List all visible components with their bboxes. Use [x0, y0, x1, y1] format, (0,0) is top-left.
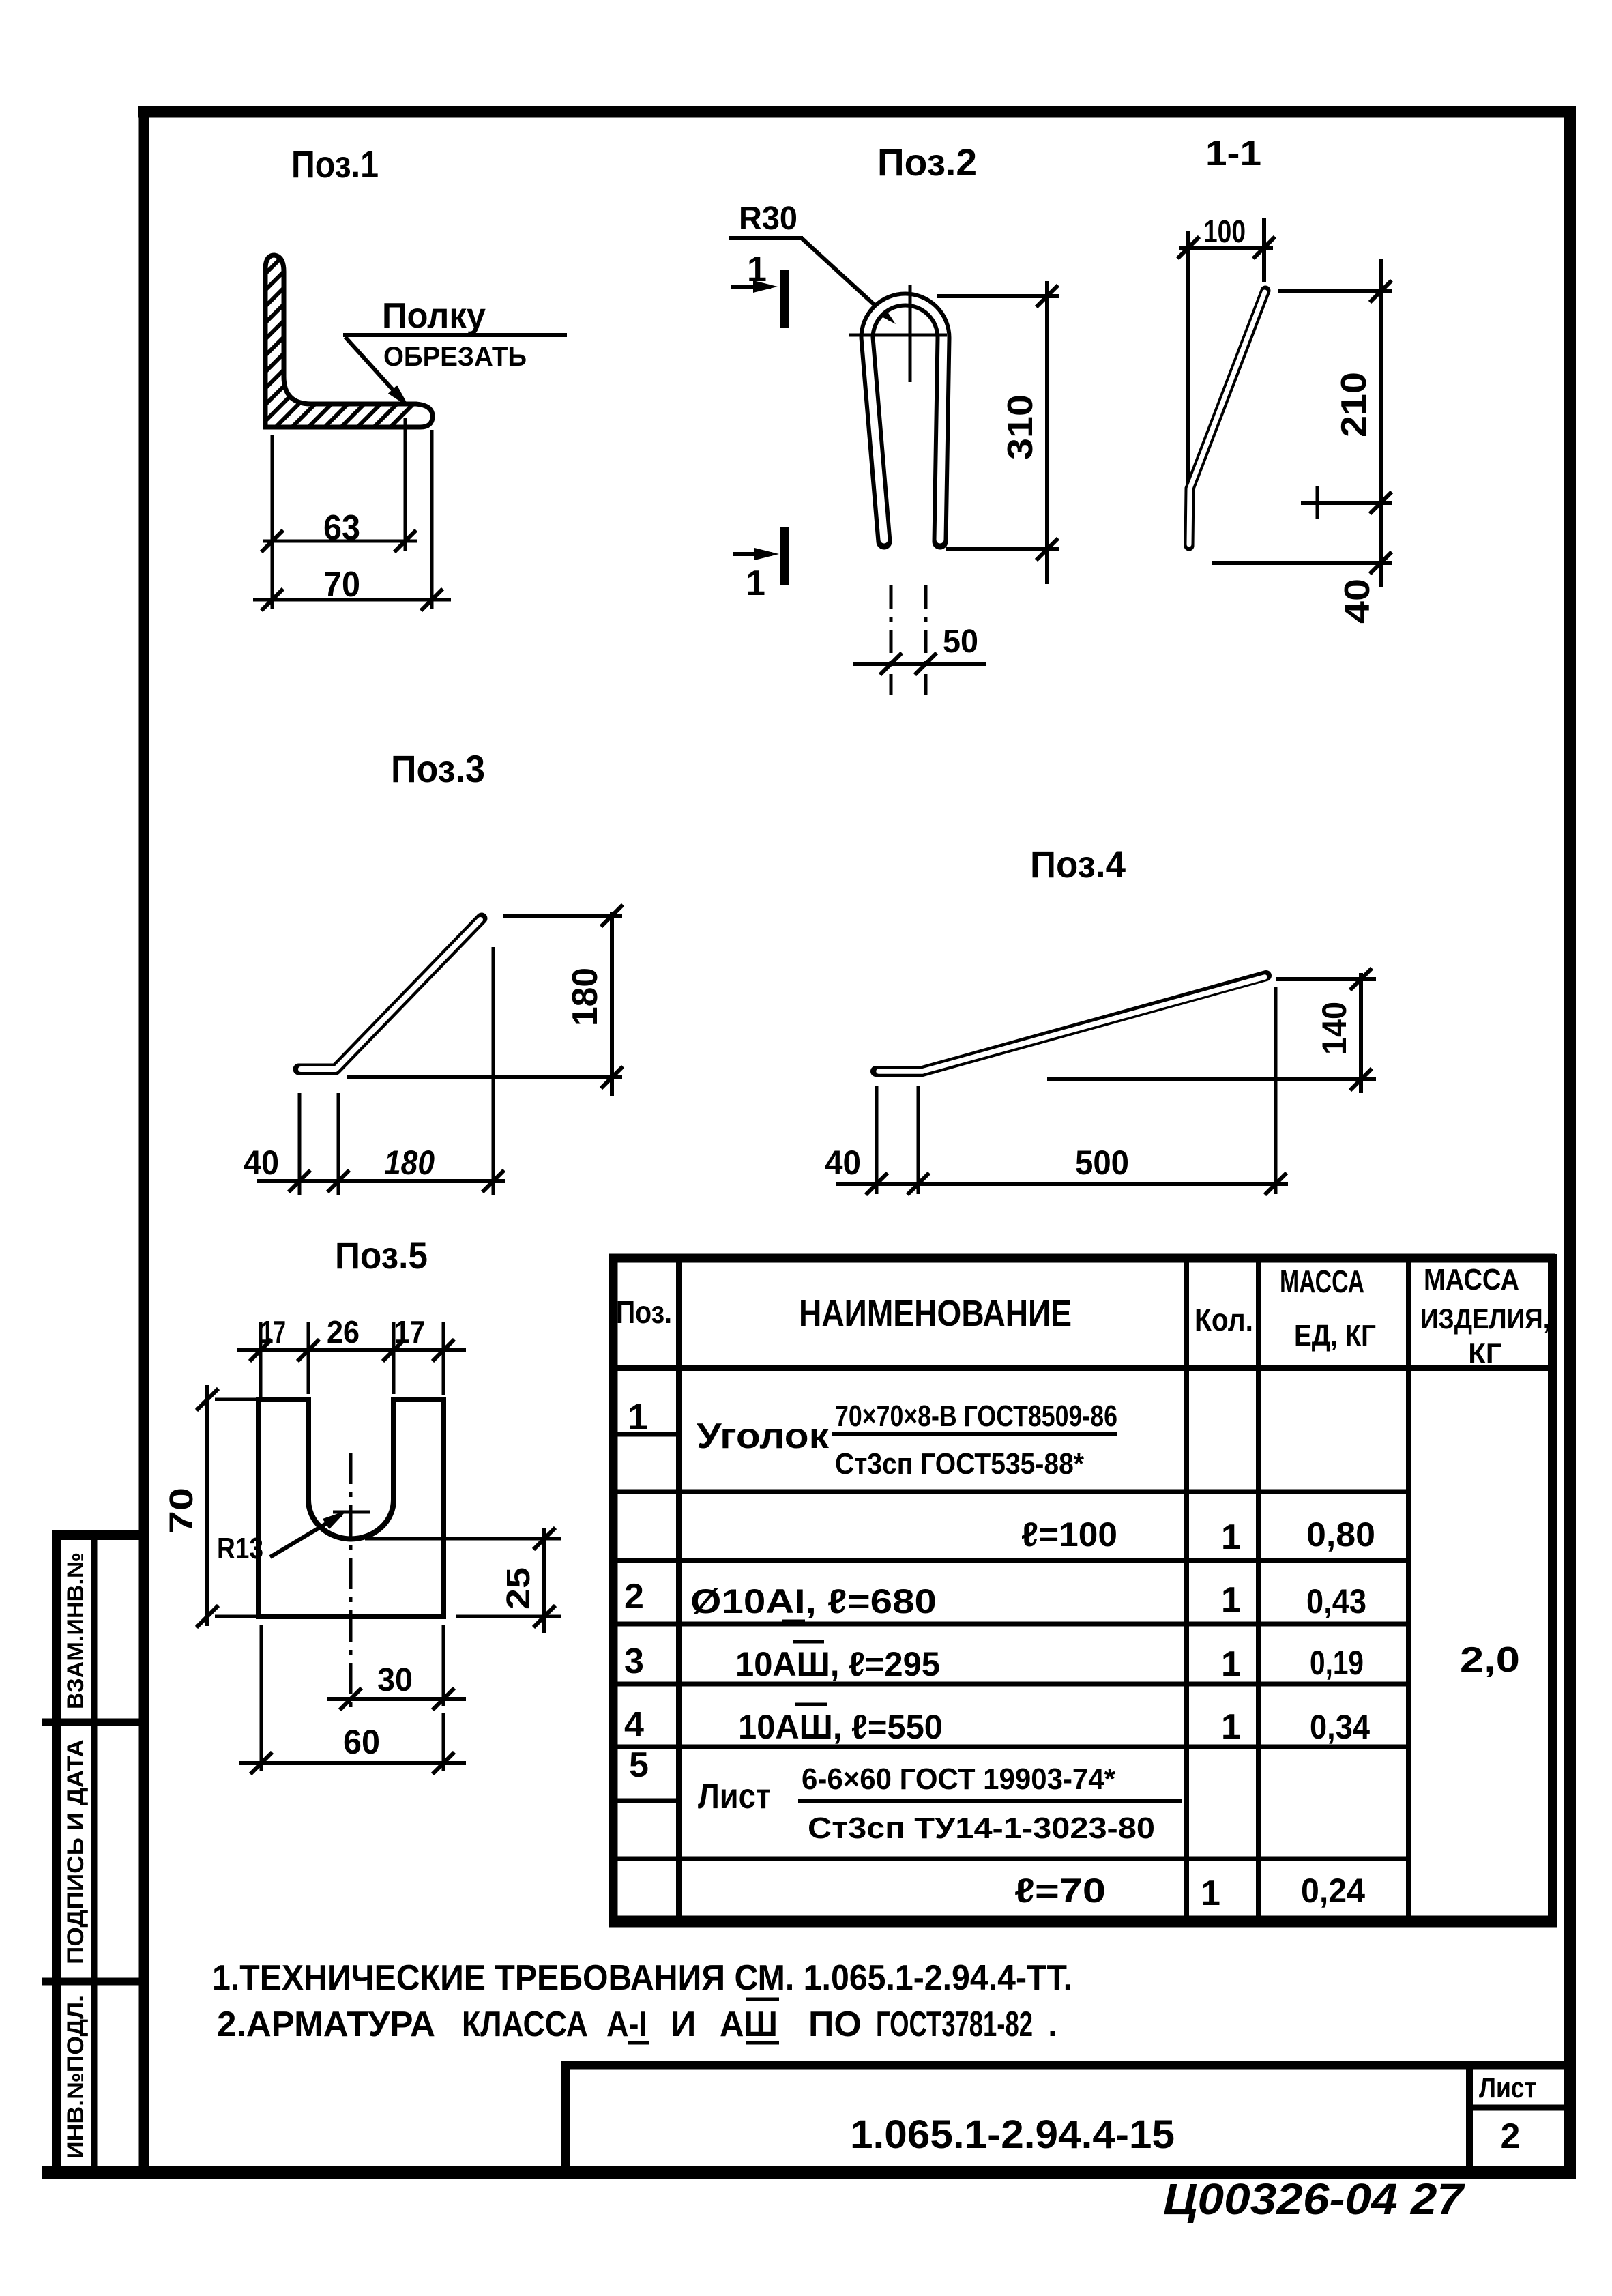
- svg-text:ИЗДЕЛИЯ,: ИЗДЕЛИЯ,: [1420, 1303, 1550, 1335]
- svg-text:70×70×8-В ГОСТ8509-86: 70×70×8-В ГОСТ8509-86: [835, 1399, 1117, 1433]
- row6 fraction bar: [798, 1799, 1182, 1803]
- sidebar divider 2: [42, 1978, 144, 1986]
- dim 310 line vertical: [1045, 281, 1049, 584]
- svg-text:0,24: 0,24: [1301, 1872, 1365, 1910]
- svg-text:Ст3сп ГОСТ535-88*: Ст3сп ГОСТ535-88*: [835, 1447, 1085, 1481]
- svg-text:1-1: 1-1: [1205, 134, 1261, 173]
- dim 100 ext line right: [1262, 218, 1266, 282]
- svg-text:R13: R13: [217, 1532, 263, 1565]
- svg-text:40: 40: [244, 1144, 279, 1182]
- dim 310 top ref line: [937, 294, 1059, 298]
- svg-text:Поз.4: Поз.4: [1030, 843, 1126, 886]
- dim 70 line: [253, 598, 451, 602]
- leader line horizontal: [343, 333, 567, 337]
- angle profile L-section hatch: [109, 252, 565, 430]
- svg-text:50: 50: [943, 624, 978, 660]
- dim 25 ref lines: [365, 1537, 561, 1541]
- svg-text:2: 2: [624, 1577, 644, 1616]
- section mark 1 bottom bar: [780, 527, 789, 585]
- svg-text:2.АРМАТУРА: 2.АРМАТУРА: [217, 2005, 435, 2044]
- table row lines: [609, 1490, 1409, 1494]
- leader line diagonal with arrow: [345, 337, 404, 402]
- top dim line 17 26 17: [237, 1348, 466, 1352]
- svg-text:70: 70: [323, 565, 360, 605]
- dim 70 extension line right: [430, 430, 434, 609]
- hairpin rod inner white: [867, 300, 943, 540]
- dim 63 extension line right: [404, 418, 407, 551]
- svg-text:1: 1: [1221, 1517, 1241, 1557]
- svg-text:Ц00326-04 27: Ц00326-04 27: [1163, 2175, 1466, 2224]
- svg-text:Поз.1: Поз.1: [291, 143, 379, 186]
- svg-text:Поз.5: Поз.5: [335, 1234, 428, 1277]
- dim 180 vertical: top ref line: [503, 914, 622, 918]
- top dim ext lines: [259, 1322, 263, 1399]
- row1 fraction bar: [832, 1432, 1117, 1436]
- bent rod Поз.3: [299, 918, 482, 1069]
- SIDEBAR (left stamp column): [42, 1530, 144, 2173]
- svg-text:Лист: Лист: [698, 1777, 771, 1816]
- svg-text:2,0: 2,0: [1460, 1640, 1520, 1680]
- svg-text:0,43: 0,43: [1306, 1582, 1366, 1621]
- svg-text:1: 1: [1221, 1580, 1241, 1620]
- row3 АI underline: [782, 1620, 805, 1623]
- svg-text:Полку: Полку: [382, 296, 486, 336]
- R30 leader underline: [729, 236, 803, 240]
- title block Лист cell divider horizontal: [1469, 2105, 1570, 2111]
- svg-text:МАССА: МАССА: [1280, 1264, 1364, 1299]
- pos4 bottom dim line: [836, 1182, 1288, 1186]
- frame top border: [138, 106, 1574, 118]
- plate center line vertical dash-dot: [349, 1453, 353, 1712]
- dim 25 vertical line: [542, 1528, 546, 1633]
- dim 140 vertical line: [1359, 973, 1363, 1093]
- dim 210 mid ref line: [1301, 501, 1392, 505]
- dim 50 line: [853, 662, 986, 666]
- svg-text:500: 500: [1075, 1144, 1129, 1182]
- dim 70 ext lines left: [215, 1398, 258, 1401]
- svg-text:Поз.2: Поз.2: [877, 141, 977, 184]
- svg-text:А-I: А-I: [606, 2005, 647, 2044]
- svg-text:КЛАССА: КЛАССА: [462, 2005, 588, 2044]
- svg-text:Уголок: Уголок: [697, 1416, 830, 1456]
- table column line Наименование: [1184, 1258, 1189, 1920]
- table column line Поз: [676, 1258, 682, 1920]
- svg-text:310: 310: [1001, 394, 1040, 460]
- note 2 АШ underline: [746, 2041, 779, 2045]
- hairpin rod outer: [867, 300, 943, 542]
- svg-text:R30: R30: [739, 201, 797, 237]
- svg-text:180: 180: [384, 1144, 435, 1182]
- svg-text:40: 40: [825, 1144, 861, 1182]
- svg-text:40: 40: [1338, 579, 1377, 624]
- hairpin center line vertical: [909, 285, 912, 382]
- svg-text:0,34: 0,34: [1310, 1708, 1370, 1746]
- svg-text:70: 70: [164, 1487, 200, 1534]
- U-slot plate outline: [259, 1399, 443, 1616]
- frame right border: [1564, 106, 1576, 2178]
- svg-text:4: 4: [624, 1705, 644, 1745]
- svg-text:0,80: 0,80: [1306, 1515, 1375, 1554]
- svg-text:Ст3сп ТУ14-1-3023-80: Ст3сп ТУ14-1-3023-80: [808, 1812, 1155, 1845]
- svg-text:30: 30: [377, 1662, 413, 1698]
- section mark 1 top arrow line: [731, 285, 771, 289]
- svg-text:5: 5: [629, 1745, 649, 1785]
- svg-text:210: 210: [1334, 372, 1374, 437]
- svg-text:ЕД, КГ: ЕД, КГ: [1294, 1319, 1376, 1352]
- svg-text:26: 26: [327, 1314, 360, 1350]
- row4 АШ overline: [793, 1640, 824, 1644]
- row5 АШ overline: [795, 1703, 827, 1706]
- bent rod Поз.4: [876, 976, 1266, 1071]
- title block Лист cell divider vertical: [1466, 2065, 1473, 2173]
- svg-text:ИНВ.№ПОДЛ.: ИНВ.№ПОДЛ.: [63, 1995, 89, 2159]
- dim 30 ext line right: [442, 1625, 445, 1706]
- svg-text:.: .: [1048, 2005, 1057, 2044]
- svg-text:АШ: АШ: [720, 2005, 778, 2044]
- svg-text:ГОСТ3781-82: ГОСТ3781-82: [876, 2005, 1033, 2044]
- svg-text:180: 180: [566, 968, 605, 1026]
- angle profile L-section outline: [265, 255, 433, 427]
- pos3 bottom dim line: [257, 1179, 505, 1183]
- svg-text:100: 100: [1203, 214, 1246, 249]
- pos4 horizontal ref line: [1047, 1077, 1376, 1081]
- arc center cross horizontal: [333, 1511, 370, 1514]
- svg-text:И: И: [671, 2005, 696, 2044]
- svg-text:Ø10АI, ℓ=680: Ø10АI, ℓ=680: [690, 1582, 937, 1621]
- dim 210 mid tick vertical: [1316, 486, 1319, 519]
- svg-text:10АШ, ℓ=295: 10АШ, ℓ=295: [735, 1645, 940, 1683]
- svg-text:1: 1: [1201, 1874, 1220, 1913]
- svg-text:1.ТЕХНИЧЕСКИЕ ТРЕБОВАНИЯ СМ.: 1.ТЕХНИЧЕСКИЕ ТРЕБОВАНИЯ СМ. 1.065.1-2.9…: [212, 1958, 1072, 1998]
- svg-text:1: 1: [628, 1397, 648, 1438]
- dim 100 ext line left: [1186, 231, 1190, 488]
- Поз column sub lines: [609, 1432, 679, 1437]
- svg-text:Кол.: Кол.: [1195, 1302, 1253, 1337]
- svg-text:1.065.1-2.94.4-15: 1.065.1-2.94.4-15: [850, 2112, 1175, 2157]
- dim 60 ext lines: [260, 1625, 263, 1771]
- title block left edge: [561, 2061, 570, 2173]
- svg-text:ПОДПИСЬ И ДАТА: ПОДПИСЬ И ДАТА: [63, 1739, 89, 1964]
- hairpin center line horizontal: [849, 334, 947, 337]
- dim 210 top ref line: [1278, 289, 1392, 293]
- svg-text:ОБРЕЗАТЬ: ОБРЕЗАТЬ: [383, 342, 527, 372]
- svg-text:КГ: КГ: [1468, 1337, 1501, 1369]
- pos3 horizontal ref line: [347, 1075, 622, 1079]
- svg-text:1: 1: [746, 564, 765, 603]
- svg-text:2: 2: [1501, 2117, 1521, 2156]
- dim 310 bottom ref line: [946, 547, 1059, 551]
- sidebar divider 1: [42, 1719, 144, 1726]
- svg-text:60: 60: [343, 1723, 380, 1761]
- pos3 bottom ext lines: [298, 1093, 302, 1195]
- svg-text:140: 140: [1315, 1002, 1353, 1055]
- dim 50 extension lines: [890, 585, 893, 695]
- dim 140 top ref line: [1276, 977, 1376, 981]
- svg-text:ℓ=100: ℓ=100: [1021, 1515, 1117, 1554]
- svg-text:Поз.3: Поз.3: [391, 747, 485, 790]
- svg-text:10АШ, ℓ=550: 10АШ, ℓ=550: [738, 1708, 943, 1746]
- dim 30 line: [327, 1697, 466, 1701]
- sidebar top edge: [52, 1530, 144, 1540]
- dim 60 line: [239, 1761, 466, 1765]
- sidebar inner divider: [91, 1535, 98, 2173]
- table header bottom line: [609, 1365, 1551, 1371]
- svg-text:ПО: ПО: [808, 2005, 862, 2044]
- svg-text:17: 17: [394, 1314, 425, 1350]
- svg-text:Поз.: Поз.: [616, 1294, 672, 1330]
- svg-text:25: 25: [501, 1567, 537, 1610]
- dim 180 vertical line: [610, 912, 614, 1096]
- table column line Масса ед: [1406, 1258, 1411, 1920]
- svg-text:0,19: 0,19: [1310, 1644, 1364, 1682]
- svg-text:1: 1: [1221, 1707, 1241, 1747]
- frame left border: [139, 106, 149, 2178]
- svg-text:1: 1: [1221, 1644, 1241, 1684]
- title block top edge: [561, 2061, 1570, 2070]
- svg-text:3: 3: [624, 1642, 644, 1681]
- note 2 АШ overline: [746, 1998, 779, 2001]
- R13 leader with arrow: [270, 1515, 341, 1557]
- dim 210/40 vertical line: [1379, 259, 1383, 587]
- section mark 1 bottom arrow line: [733, 552, 772, 556]
- svg-text:ℓ=70: ℓ=70: [1014, 1872, 1106, 1910]
- svg-text:Лист: Лист: [1479, 2072, 1536, 2104]
- R30 leader diagonal with arrow: [802, 238, 890, 319]
- dim 63 line: [263, 540, 417, 543]
- table column line Кол: [1256, 1258, 1261, 1920]
- svg-text:17: 17: [261, 1314, 286, 1350]
- svg-text:ВЗАМ.ИНВ.№: ВЗАМ.ИНВ.№: [63, 1552, 89, 1709]
- dim 70 vertical line: [205, 1385, 209, 1626]
- note 2 А-I underline: [628, 2041, 649, 2045]
- dim 40 bottom ref line: [1212, 561, 1392, 565]
- dim 100 line: [1179, 246, 1273, 250]
- svg-text:6-6×60 ГОСТ 19903-74*: 6-6×60 ГОСТ 19903-74*: [802, 1762, 1116, 1796]
- dim 63 extension line left: [271, 435, 274, 609]
- svg-text:МАССА: МАССА: [1424, 1263, 1519, 1296]
- section mark 1 top bar: [780, 270, 789, 328]
- table outer border: [609, 1254, 618, 1924]
- pos3 long vertical ext line: [492, 947, 495, 1195]
- inclined rod 1-1: [1189, 291, 1265, 546]
- svg-text:63: 63: [323, 508, 360, 548]
- sidebar left edge: [52, 1530, 61, 2173]
- svg-text:НАИМЕНОВАНИЕ: НАИМЕНОВАНИЕ: [799, 1293, 1072, 1334]
- pos4 ext lines bottom: [875, 1086, 879, 1194]
- frame bottom border: [42, 2166, 1576, 2179]
